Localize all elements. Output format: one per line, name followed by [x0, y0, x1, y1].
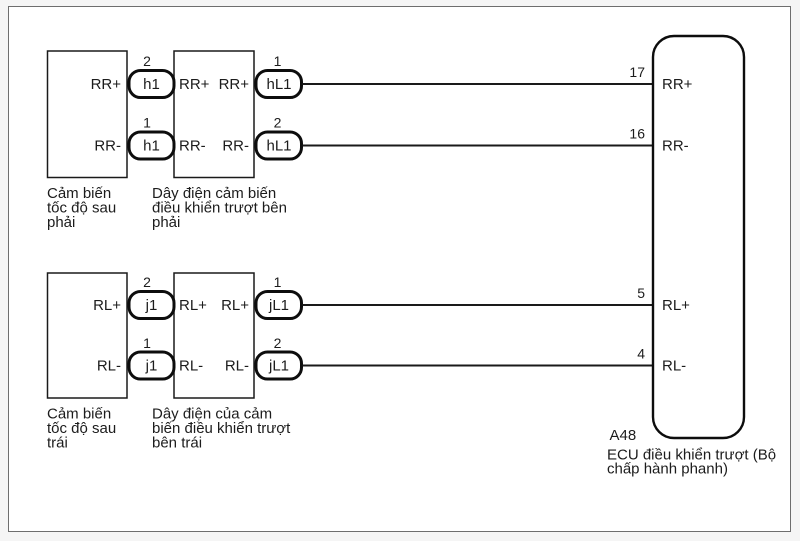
wire RR+ to ECU pin 17: [303, 83, 654, 85]
svg-text:RR-: RR-: [662, 138, 689, 155]
svg-text:h1: h1: [143, 76, 160, 93]
connector jL1 pin 2: [256, 335, 302, 379]
svg-text:2: 2: [274, 115, 282, 131]
svg-text:1: 1: [143, 115, 151, 131]
svg-text:RR+: RR+: [662, 76, 693, 93]
svg-text:RL+: RL+: [221, 297, 249, 314]
connector j1 pin 2: [129, 274, 174, 319]
svg-text:A48: A48: [610, 427, 637, 444]
svg-text:RR+: RR+: [91, 76, 122, 93]
svg-text:1: 1: [274, 53, 282, 69]
label: Dây điện của cảm biến điều khiển trượt bên trái: [152, 406, 291, 452]
connector h1 pin 1: [129, 115, 174, 160]
connector jL1 pin 1: [256, 274, 302, 319]
svg-text:hL1: hL1: [266, 76, 291, 93]
svg-text:2: 2: [143, 53, 151, 69]
svg-text:jL1: jL1: [268, 358, 289, 375]
label: Cảm biến tốc độ sau phải: [47, 185, 116, 231]
sensor box: rear left speed sensor: [48, 273, 128, 398]
svg-text:1: 1: [143, 335, 151, 351]
svg-text:hL1: hL1: [266, 138, 291, 155]
svg-text:RR+: RR+: [179, 76, 210, 93]
svg-text:j1: j1: [145, 297, 158, 314]
svg-text:chấp hành phanh): chấp hành phanh): [607, 461, 728, 478]
svg-text:RL-: RL-: [662, 358, 686, 375]
connector hL1 pin 1: [256, 53, 302, 98]
label: Dây điện cảm biến điều khiển trượt bên phải: [152, 185, 287, 231]
label: Cảm biến tốc độ sau trái: [47, 406, 116, 452]
svg-text:bên trái: bên trái: [152, 435, 202, 452]
svg-text:17: 17: [629, 64, 645, 80]
svg-text:2: 2: [274, 335, 282, 351]
svg-text:RL-: RL-: [225, 358, 249, 375]
svg-text:j1: j1: [145, 358, 158, 375]
svg-text:2: 2: [143, 274, 151, 290]
svg-text:RR+: RR+: [219, 76, 250, 93]
wire RL+ to ECU pin 5: [303, 304, 654, 306]
svg-text:1: 1: [274, 274, 282, 290]
svg-text:RR-: RR-: [222, 138, 249, 155]
harness box: left skid control sensor wire: [174, 273, 254, 398]
ECU A48 box: [653, 36, 744, 438]
svg-text:jL1: jL1: [268, 297, 289, 314]
svg-text:phải: phải: [47, 214, 75, 231]
svg-text:h1: h1: [143, 138, 160, 155]
svg-text:RR-: RR-: [179, 138, 206, 155]
svg-text:16: 16: [629, 126, 645, 142]
svg-text:5: 5: [637, 285, 645, 301]
wire RL- to ECU pin 4: [303, 365, 654, 367]
svg-text:4: 4: [637, 346, 645, 362]
svg-text:RL-: RL-: [97, 358, 121, 375]
wire RR- to ECU pin 16: [303, 145, 654, 147]
svg-text:phải: phải: [152, 214, 180, 231]
connector j1 pin 1: [129, 335, 174, 379]
label: A48 ECU điều khiển trượt (Bộ chấp hành phanh): [607, 427, 776, 478]
svg-text:RL+: RL+: [179, 297, 207, 314]
svg-text:trái: trái: [47, 435, 68, 452]
svg-text:RL+: RL+: [662, 297, 690, 314]
harness box: right skid control sensor wire: [174, 51, 254, 178]
svg-text:RL-: RL-: [179, 358, 203, 375]
svg-text:RL+: RL+: [93, 297, 121, 314]
connector h1 pin 2: [129, 53, 174, 98]
sensor box: rear right speed sensor: [48, 51, 128, 178]
connector hL1 pin 2: [256, 115, 302, 160]
svg-text:RR-: RR-: [94, 138, 121, 155]
